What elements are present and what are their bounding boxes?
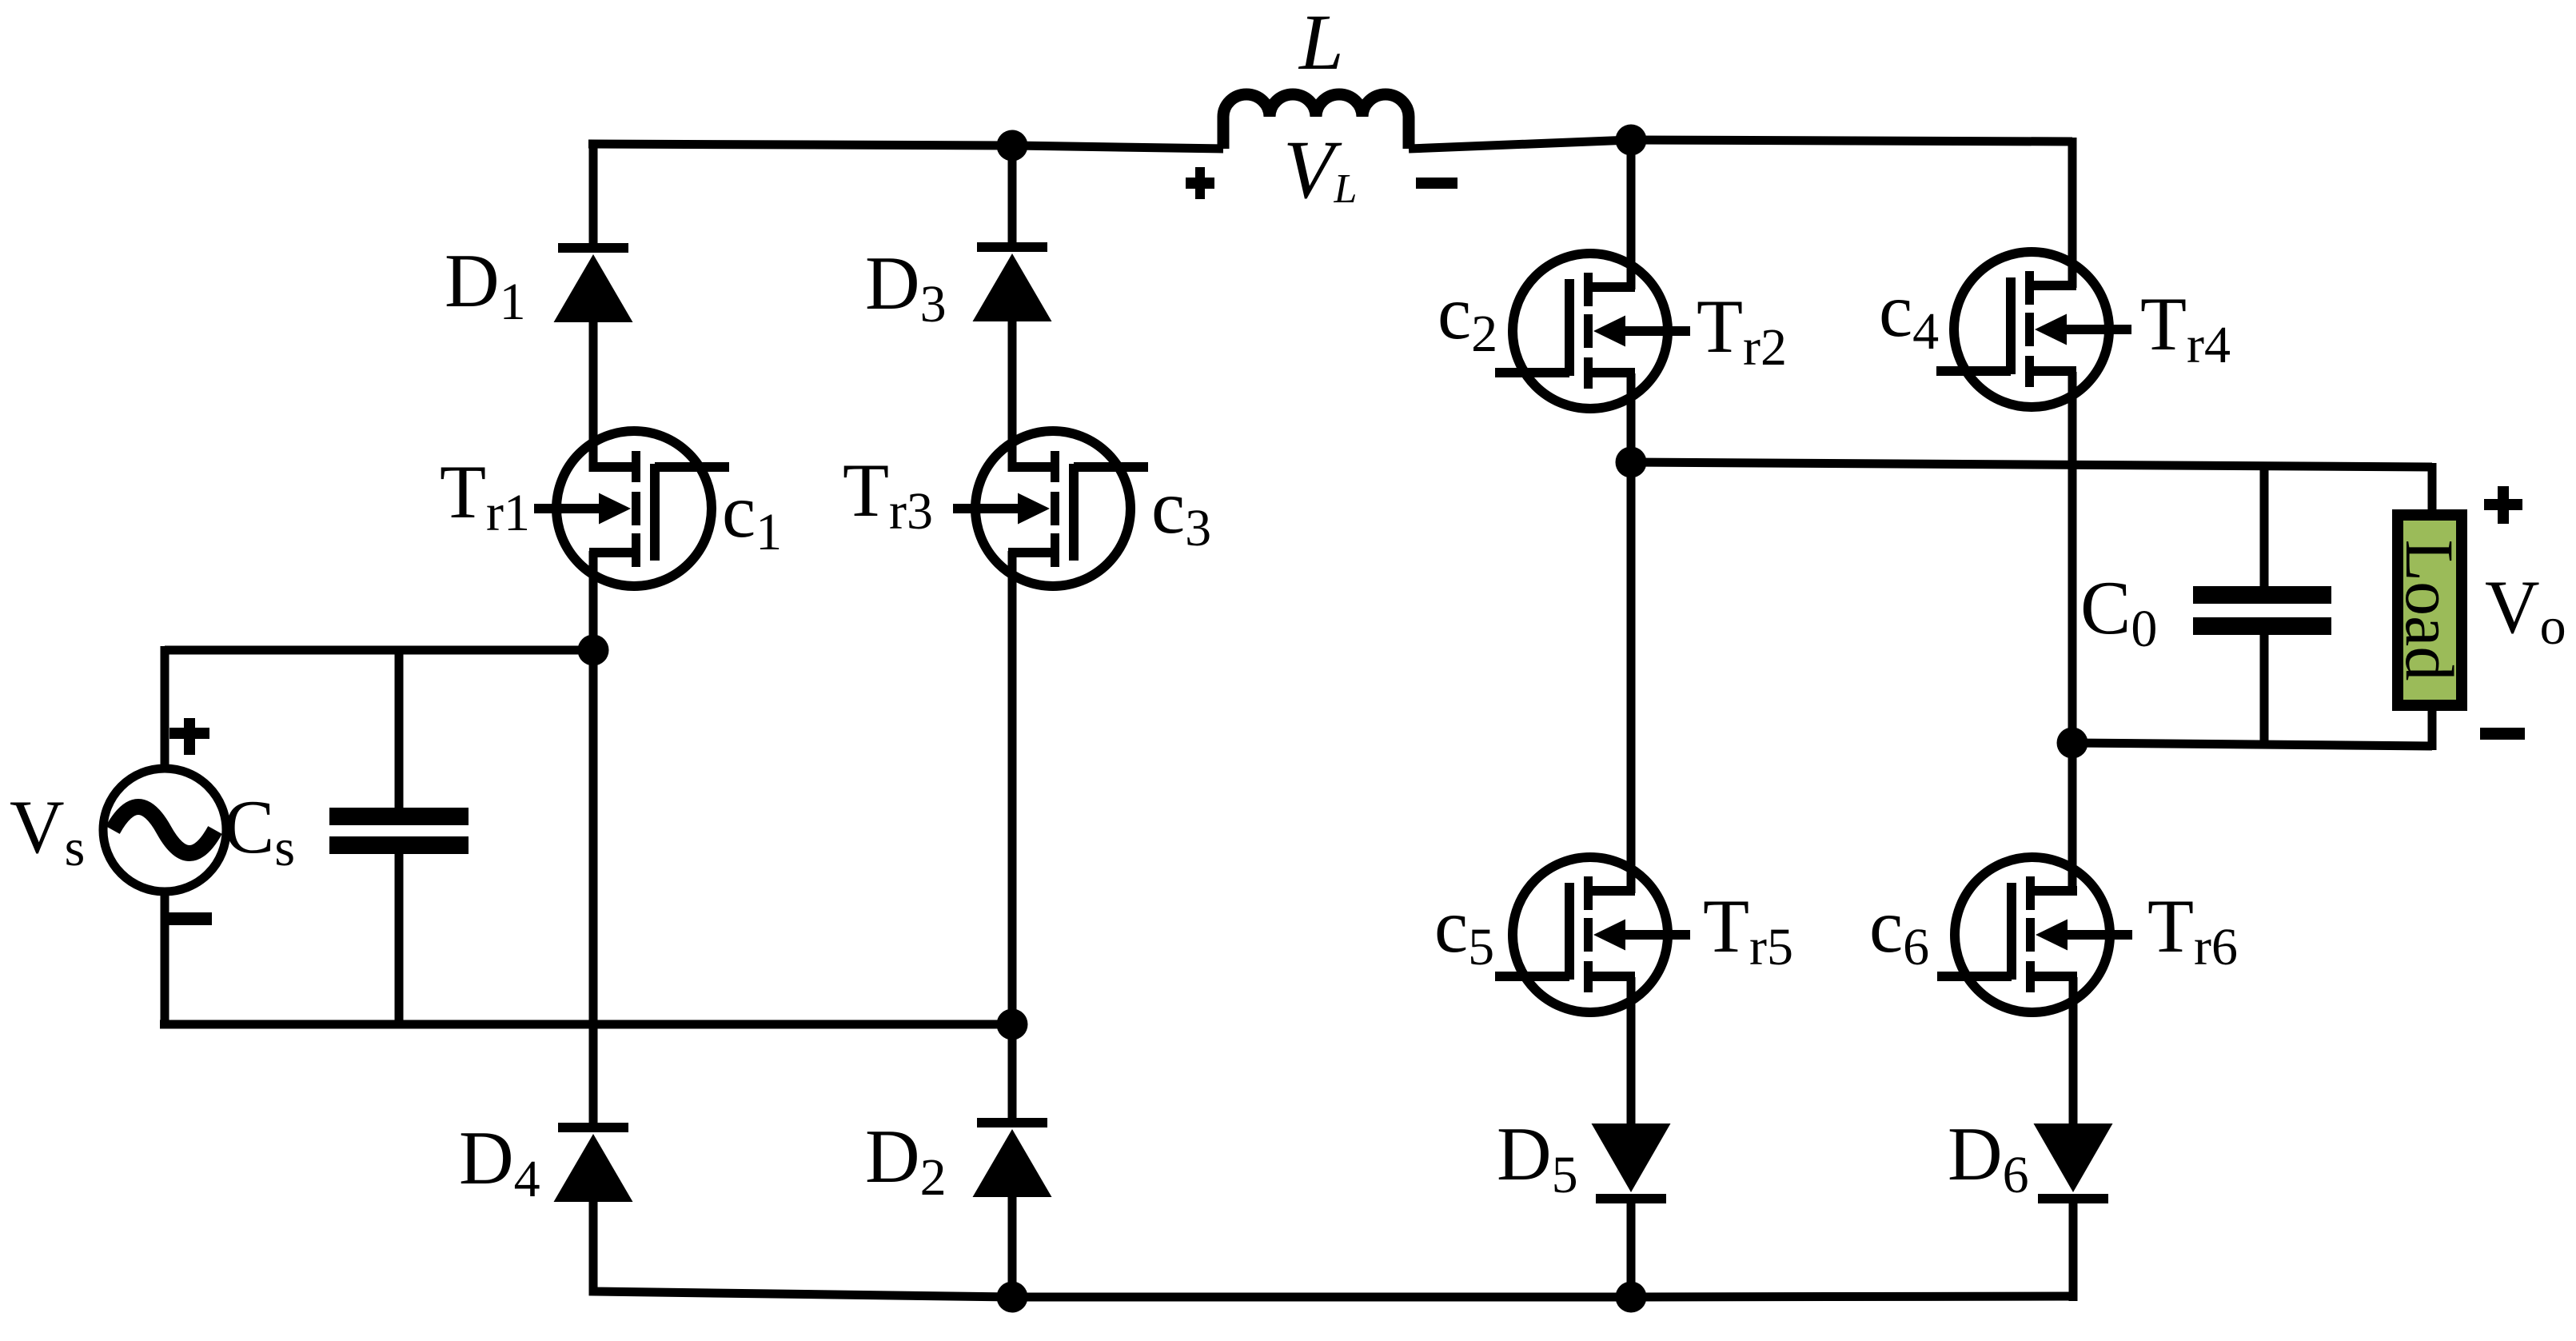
wire load top lead (2428, 463, 2437, 516)
capacitor C0 (2193, 586, 2331, 635)
node junction output rail (2057, 728, 2088, 759)
wire Tr2 drain (1627, 136, 1636, 289)
capacitor Cs (329, 808, 469, 854)
wire bottom rail middle (1012, 1293, 1631, 1302)
minus mark Vo (2480, 728, 2525, 740)
diode D6 (2034, 1123, 2113, 1203)
plus mark Vs (169, 718, 209, 755)
wire top rail right (1631, 140, 2072, 142)
minus mark VL (1416, 178, 1457, 189)
wire load bottom lead (2428, 705, 2437, 750)
wire D3 top (1008, 142, 1017, 242)
wire Vs top lead (161, 646, 169, 768)
wire Tr3 source to D2 (1008, 551, 1017, 1118)
load (2391, 515, 2468, 705)
plus mark VL (1186, 167, 1214, 199)
transistor Tr3 (953, 431, 1148, 586)
wire D6 bottom leg (2069, 1203, 2078, 1301)
wire Vs plus rail (165, 646, 593, 655)
wire D4 leg (589, 650, 598, 1123)
wire top rail left (588, 144, 1223, 149)
wire output bottom rail (2072, 743, 2432, 746)
diode D4 (554, 1123, 633, 1202)
wire Tr5 source (1627, 977, 1636, 1123)
node junction bottom D5 (1616, 1282, 1647, 1313)
plus mark Vo (2484, 486, 2522, 524)
wire D4 to bottom rail (593, 1200, 1012, 1297)
wire D1 top (589, 140, 598, 243)
wire Tr6 source (2069, 977, 2078, 1123)
diode D2 (973, 1118, 1052, 1197)
svg-text:L: L (1298, 0, 1344, 86)
wire Vs bottom lead (161, 892, 169, 1028)
wire D3 to Tr3 (1008, 321, 1017, 472)
wire Cs bottom lead (395, 854, 404, 1024)
diode D5 (1592, 1123, 1671, 1203)
transistor Tr1 (534, 431, 729, 586)
svg-text:Load: Load (2391, 540, 2468, 681)
wire C0 bottom lead (2260, 635, 2269, 748)
wire C0 top lead (2260, 464, 2269, 586)
minus mark Vs (168, 912, 212, 925)
wire top rail middle (1409, 140, 1631, 149)
source Vs (103, 768, 226, 892)
transistor Tr4 (1936, 252, 2131, 407)
wire Cs top lead (395, 650, 404, 808)
wire D1 to Tr1 (589, 322, 598, 472)
diode D1 (554, 243, 633, 322)
wire Tr2 source (1627, 373, 1636, 466)
wire Tr5 drain (1627, 458, 1636, 893)
node junction top D3 (997, 130, 1028, 162)
transistor Tr5 (1495, 857, 1690, 1012)
transistor Tr6 (1937, 857, 2132, 1012)
transistor Tr2 (1495, 253, 1690, 409)
node junction bottom D2 (997, 1282, 1028, 1313)
wire Tr4 drain (2068, 138, 2077, 288)
node junction Tr1 source (578, 635, 609, 666)
node junction Vs minus D2 (997, 1009, 1028, 1040)
wire Tr1 source to node (589, 551, 598, 654)
wire Vs minus rail (160, 1020, 1012, 1029)
wire mid rail (1631, 462, 2432, 467)
inductor L (1223, 94, 1409, 149)
wire bottom rail right (1631, 1296, 2073, 1297)
wire D2 to bottom rail (1008, 1197, 1017, 1301)
wire Tr4 source to Tr6 drain (2068, 372, 2077, 893)
diode D3 (973, 242, 1052, 321)
node junction mid rail (1616, 447, 1647, 478)
wire D5 to bottom rail (1627, 1203, 1636, 1301)
node junction top Tr2 (1616, 125, 1647, 156)
